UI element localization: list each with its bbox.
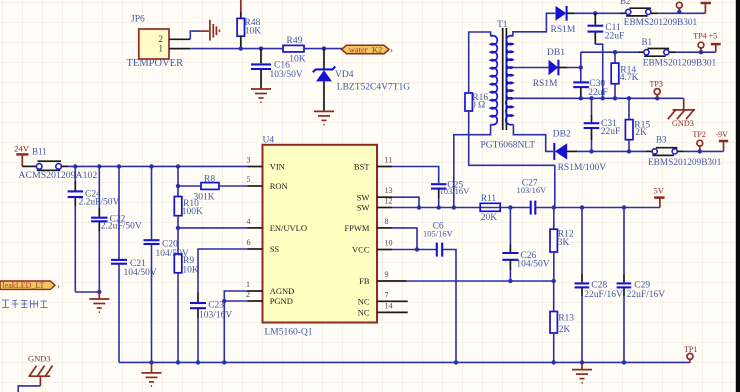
- wire FPWM to VCC line: [392, 228, 417, 250]
- svg-text:6: 6: [247, 238, 251, 247]
- capacitor C22: [91, 166, 142, 292]
- svg-text:VIN: VIN: [270, 162, 285, 172]
- ground below C22/C24: [89, 292, 109, 312]
- svg-text:5: 5: [247, 175, 251, 184]
- svg-text:›: ›: [390, 45, 393, 55]
- junction R12,R13/FB line: [552, 279, 556, 283]
- svg-text:4.7K: 4.7K: [620, 73, 639, 83]
- svg-text:2K: 2K: [635, 128, 647, 138]
- junction C24/rail: [73, 164, 77, 168]
- svg-text:B11: B11: [32, 147, 47, 157]
- svg-text:TP2: TP2: [693, 130, 706, 139]
- svg-text:7: 7: [385, 290, 389, 299]
- svg-text:C28: C28: [591, 280, 607, 290]
- pin 12 SW: [377, 207, 392, 209]
- svg-text:R8: R8: [204, 174, 215, 184]
- svg-text:1: 1: [246, 280, 250, 289]
- ferrite bead B1: [642, 37, 717, 69]
- svg-text:FPWM: FPWM: [344, 223, 369, 233]
- svg-text:10K: 10K: [245, 27, 261, 37]
- svg-text:B3: B3: [656, 135, 667, 145]
- pin 6 SS: [248, 248, 263, 250]
- svg-text:301K: 301K: [194, 193, 215, 203]
- junction R15/GND3 row: [627, 96, 631, 100]
- capacitor C26: [502, 208, 549, 282]
- svg-text:NC: NC: [358, 308, 370, 318]
- svg-text:0 Ω: 0 Ω: [471, 100, 485, 110]
- wire T1 secondary bottom to DB2: [513, 124, 553, 151]
- svg-text:LBZT52C4V7T1G: LBZT52C4V7T1G: [337, 83, 410, 93]
- junction R12/5V line: [552, 205, 556, 209]
- capacitor C24: [68, 166, 120, 292]
- svg-text:10K: 10K: [182, 266, 199, 276]
- wire DB1 to B1 row: [567, 52, 581, 67]
- wire C6 to ground rail: [442, 250, 456, 363]
- svg-text:R9: R9: [183, 256, 194, 266]
- svg-text:TP4 +5: TP4 +5: [693, 31, 717, 40]
- svg-text:LM5160-Q1: LM5160-Q1: [265, 328, 313, 338]
- pin 9 FB: [377, 280, 407, 282]
- junction FPWM/VCC line: [415, 247, 419, 251]
- junction R10/rail: [176, 164, 180, 168]
- wire C27 to 5V bar: [535, 207, 660, 209]
- resistor R16: [465, 93, 488, 135]
- T1 primary winding: [491, 36, 498, 125]
- svg-text:R13: R13: [558, 314, 574, 324]
- svg-text:103/16V: 103/16V: [517, 185, 548, 195]
- svg-text:4: 4: [247, 217, 251, 226]
- T1 core: [503, 28, 507, 130]
- svg-text:9: 9: [385, 270, 389, 279]
- wire JP6 pin1 to R49: [190, 48, 283, 50]
- wire AGND: [224, 291, 247, 362]
- power bar (top right): [701, 3, 712, 13]
- junction C11/GND3 row: [601, 96, 605, 100]
- capacitor C11: [588, 13, 625, 44]
- wire 24V rail to VIN: [68, 165, 248, 167]
- resistor R15: [625, 98, 650, 151]
- junction primary node/SW line: [452, 205, 456, 209]
- svg-text:SW: SW: [357, 192, 370, 202]
- svg-text:103/16V: 103/16V: [199, 311, 232, 321]
- resistor R11: [480, 194, 500, 223]
- svg-text:VD4: VD4: [335, 70, 354, 80]
- svg-text:1: 1: [159, 44, 164, 54]
- resistor R10: [174, 166, 203, 254]
- svg-text:GND3: GND3: [28, 354, 51, 364]
- capacitor C20: [144, 166, 189, 362]
- capacitor C25: [431, 181, 470, 208]
- ground (rotated) at JP6 pin2: [200, 20, 220, 41]
- power port GND3 (top right): [668, 98, 695, 128]
- resistor R14: [611, 52, 638, 98]
- pin 3 VIN: [248, 166, 263, 168]
- wire SS to C23: [198, 249, 248, 293]
- junction C16/wire: [259, 46, 263, 50]
- svg-text:ACMS201209A102: ACMS201209A102: [18, 170, 97, 181]
- svg-text:13: 13: [385, 186, 393, 195]
- ground below VD4: [314, 111, 334, 124]
- wire -9V row: [577, 150, 724, 152]
- capacitor C23: [190, 293, 232, 363]
- junction C26/FB line: [508, 279, 512, 283]
- wire SW pin13 joins pin12: [392, 197, 419, 207]
- junction C30/GND3 row: [579, 96, 583, 100]
- svg-text:22uF/16V: 22uF/16V: [584, 290, 623, 300]
- svg-text:2K: 2K: [559, 325, 571, 335]
- junction TP4/B1 row: [699, 50, 703, 54]
- transformer T1 PGT6068NLT: [481, 20, 536, 151]
- connector JP6: [127, 15, 184, 70]
- junction test point/B2 row: [677, 10, 681, 14]
- junction C6/ground rail: [454, 360, 458, 364]
- svg-text:C29: C29: [634, 280, 650, 290]
- svg-text:103/16V: 103/16V: [440, 186, 471, 196]
- svg-text:3: 3: [247, 156, 251, 165]
- text note (chinese): [2, 300, 48, 308]
- svg-text:B2: B2: [620, 0, 631, 6]
- svg-text:TP3: TP3: [650, 79, 663, 88]
- power bar +5: [711, 44, 721, 52]
- svg-text:DB2: DB2: [553, 130, 571, 140]
- svg-text:GND3: GND3: [672, 119, 694, 128]
- power port GND3 (bottom left): [28, 354, 53, 386]
- ground below C28: [572, 362, 592, 382]
- T1 secondary winding: [506, 36, 513, 125]
- svg-text:EBMS201209B301: EBMS201209B301: [648, 158, 722, 168]
- pin 8 FPWM: [377, 227, 392, 229]
- ground below C16: [251, 89, 271, 102]
- svg-text:105/16V: 105/16V: [423, 229, 454, 239]
- wire C11 to GND3 row: [595, 44, 602, 98]
- diode RS1M (top): [551, 6, 576, 35]
- junction VD4/wire: [322, 46, 326, 50]
- junction TP3/GND3 row: [655, 96, 659, 100]
- svg-text:EBMS201209B301: EBMS201209B301: [624, 18, 698, 28]
- capacitor C28: [575, 208, 623, 363]
- svg-text:11: 11: [385, 156, 393, 165]
- test point TP2: [693, 130, 706, 151]
- capacitor C16: [251, 49, 303, 89]
- junction C20/rail: [149, 164, 153, 168]
- svg-text:BST: BST: [354, 162, 370, 172]
- pin 1 of JP6: [169, 48, 190, 50]
- junction R14/GND3 row: [613, 96, 617, 100]
- wire EN/UVLO: [178, 227, 248, 229]
- wire RS1M to B2 row: [575, 12, 705, 14]
- svg-text:104/50V: 104/50V: [516, 259, 549, 269]
- capacitor C21: [111, 166, 157, 362]
- junction C29/5V line: [622, 205, 626, 209]
- wire T1 primary bottom node: [454, 124, 491, 207]
- junction TP2/-9V row: [698, 149, 702, 153]
- svg-text:R11: R11: [481, 194, 497, 204]
- svg-text:RS1M: RS1M: [551, 25, 576, 35]
- junction C20/rail bottom: [149, 360, 153, 364]
- ferrite bead B3: [648, 135, 722, 168]
- resistor R12: [550, 208, 574, 282]
- ground below C20: [142, 362, 162, 386]
- svg-text:10K: 10K: [289, 54, 306, 64]
- junction pin13/SW line: [417, 205, 421, 209]
- capacitor C29: [617, 208, 666, 363]
- power stub above R48: [240, 0, 242, 12]
- pin 4 EN/UVLO: [248, 227, 263, 229]
- diode DB2: [553, 130, 607, 173]
- resistor R48: [237, 12, 261, 49]
- junction R13/ground rail: [552, 360, 556, 364]
- svg-text:PGND: PGND: [270, 296, 293, 306]
- svg-text:C23: C23: [208, 301, 224, 311]
- capacitor C30: [573, 68, 608, 99]
- test point TP4: [693, 31, 717, 52]
- junction C29/ground rail: [622, 360, 626, 364]
- svg-text:B1: B1: [642, 37, 653, 47]
- svg-text:NC: NC: [358, 296, 370, 306]
- wire SW line to C27: [392, 207, 531, 209]
- svg-text:103/50V: 103/50V: [270, 70, 303, 80]
- wire PGND: [224, 300, 247, 302]
- pin 2 of JP6: [169, 38, 190, 40]
- junction C25/SW line: [437, 205, 441, 209]
- svg-text:24V: 24V: [14, 144, 30, 154]
- resistor R8: [178, 174, 248, 202]
- svg-text:EN/UVLO: EN/UVLO: [270, 223, 307, 233]
- wire BST to C25: [392, 167, 439, 184]
- svg-text:100K: 100K: [182, 207, 203, 217]
- svg-text:›: ›: [57, 281, 60, 291]
- junction C26/SW line: [508, 205, 512, 209]
- wire JP6 pin2 to ground: [190, 31, 200, 39]
- junction at ground join: [97, 290, 101, 294]
- junction C31/GND3 row: [589, 96, 593, 100]
- resistor R49: [283, 36, 306, 65]
- wire C24 to C22 ground join: [75, 291, 99, 293]
- svg-text:water_K2: water_K2: [349, 44, 383, 54]
- svg-text:5V: 5V: [654, 186, 665, 196]
- wire bottom ground rail: [119, 361, 690, 363]
- wire primary node to 5V node: [469, 135, 555, 208]
- ferrite bead B11: [18, 147, 97, 182]
- wire T1 secondary top to RS1M: [513, 13, 555, 36]
- svg-text:SW: SW: [357, 203, 370, 213]
- junction DB1/C30 column: [579, 65, 583, 69]
- pin 5 RON: [248, 185, 263, 187]
- wire T1 secondary tap to DB1: [513, 67, 549, 69]
- junction R14/B1 row: [613, 50, 617, 54]
- svg-text:DB1: DB1: [547, 48, 565, 58]
- junction C31/-9V row: [589, 149, 593, 153]
- svg-text:FB: FB: [359, 276, 370, 286]
- zener diode VD4: [313, 49, 410, 111]
- junction PGND/AGND column: [222, 299, 226, 303]
- svg-text:SS: SS: [270, 244, 280, 254]
- resistor R9: [174, 254, 199, 362]
- svg-text:12: 12: [385, 197, 393, 206]
- test point TP3: [650, 79, 663, 98]
- svg-text:JP6: JP6: [131, 15, 145, 25]
- capacitor C31: [584, 98, 621, 151]
- ferrite bead B2: [620, 0, 698, 28]
- svg-text:22uF: 22uF: [605, 32, 625, 42]
- port leakLED_LT: [0, 281, 60, 291]
- junction C23/rail bottom: [196, 360, 200, 364]
- svg-text:TEMPOVER: TEMPOVER: [127, 58, 184, 69]
- junction C11/B2 row: [593, 11, 597, 15]
- border strip right: [736, 0, 740, 392]
- wire R49 to port: [304, 48, 343, 50]
- junction EN wire/R10 column: [176, 226, 180, 230]
- wire FB line: [407, 280, 554, 282]
- pin 13 SW: [377, 196, 392, 198]
- resistor R13: [550, 281, 574, 362]
- wire B1 row: [581, 51, 716, 53]
- svg-text:TP1: TP1: [684, 345, 697, 354]
- wire VCC to C6: [392, 249, 437, 251]
- junction R9/rail bottom: [176, 360, 180, 364]
- junction R8/R10 column: [176, 184, 180, 188]
- svg-text:RS1M: RS1M: [533, 79, 558, 89]
- capacitor C6: [423, 221, 454, 256]
- diode DB1: [533, 48, 568, 89]
- pin 2 PGND: [248, 300, 263, 302]
- wire GND3 net row: [513, 97, 684, 99]
- junction R48/wire: [239, 46, 243, 50]
- svg-text:VCC: VCC: [352, 245, 370, 255]
- pin 1 AGND: [248, 290, 263, 292]
- pin 7 NC: [377, 300, 408, 302]
- svg-text:RON: RON: [270, 181, 288, 191]
- junction C28/5V line: [580, 205, 584, 209]
- op-amp/regulator U4 LM5160-Q1: [263, 135, 378, 337]
- power port 24V: [14, 144, 30, 167]
- svg-text:8: 8: [385, 217, 389, 226]
- svg-text:22uF: 22uF: [601, 127, 621, 137]
- wire to GND3 bottom left: [18, 386, 40, 392]
- svg-text:EBMS201209B301: EBMS201209B301: [643, 59, 717, 69]
- svg-text:2.2uF/50V: 2.2uF/50V: [101, 222, 142, 232]
- power bar -9V: [716, 130, 729, 151]
- capacitor C27: [517, 178, 548, 214]
- svg-text:14: 14: [385, 301, 393, 310]
- svg-text:-9V: -9V: [716, 130, 729, 139]
- svg-text:10: 10: [385, 239, 393, 248]
- svg-text:3K: 3K: [558, 238, 570, 248]
- pin 11 BST: [377, 166, 392, 168]
- svg-text:20K: 20K: [481, 213, 498, 223]
- svg-text:R49: R49: [287, 36, 303, 46]
- svg-text:22uF/16V: 22uF/16V: [627, 290, 666, 300]
- svg-text:PGT6068NLT: PGT6068NLT: [481, 141, 536, 151]
- junction AGND/rail bottom: [222, 360, 226, 364]
- svg-text:leakLED_LT: leakLED_LT: [3, 281, 45, 290]
- svg-text:U4: U4: [263, 135, 275, 145]
- junction C21/rail: [117, 164, 121, 168]
- pin 10 VCC: [377, 249, 392, 251]
- junction C22/rail: [97, 164, 101, 168]
- test point (top): [676, 2, 682, 12]
- pin 14 NC: [377, 311, 408, 313]
- power bar 5V: [654, 186, 665, 208]
- test point TP1: [684, 345, 697, 362]
- wire T1 primary top to R16 top: [469, 32, 491, 93]
- port water_K2: [342, 44, 394, 55]
- junction R15/-9V row: [627, 149, 631, 153]
- svg-text:AGND: AGND: [270, 286, 295, 296]
- svg-text:RS1M/100V: RS1M/100V: [558, 163, 607, 173]
- junction C28/ground rail: [580, 360, 584, 364]
